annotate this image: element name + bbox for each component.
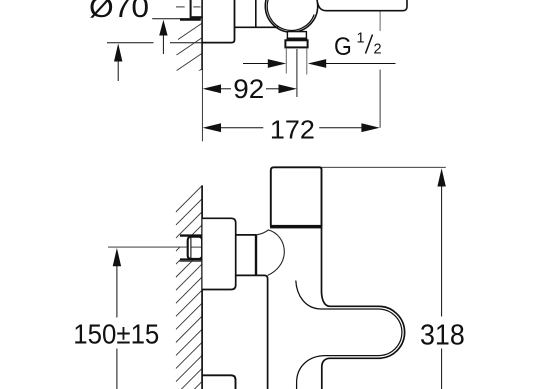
svg-text:G: G <box>334 33 352 61</box>
thick joint band <box>270 225 322 229</box>
dimension 92 <box>203 84 297 93</box>
body front edge (top view) <box>235 26 279 28</box>
s-union top thick line <box>180 234 202 236</box>
wall face line (side view) <box>201 185 203 389</box>
neck bottom to down tube corner <box>256 275 267 389</box>
thin line below s-union <box>180 260 202 262</box>
wall face / escutcheon back edge (top view) <box>201 0 203 70</box>
lower escutcheon (shower connection) <box>203 375 236 389</box>
s-union visible above wall <box>190 0 192 16</box>
escutcheon (side view) <box>203 218 236 289</box>
inlet center line inside nut <box>192 246 202 248</box>
outlet nut thick collar <box>287 38 308 41</box>
G 1/2 dimension arrows <box>243 59 396 68</box>
wall hatch (side view) <box>176 186 202 389</box>
nut face line <box>190 237 192 258</box>
dimension 172 <box>203 123 380 132</box>
dimension 318 <box>437 168 445 389</box>
extension line spout mouth center <box>379 12 381 32</box>
318 extension line from body top <box>322 166 446 168</box>
wall hatch (top view) <box>177 23 202 78</box>
inlet center line / 150 extension <box>108 246 188 248</box>
knob outer circle <box>265 0 317 32</box>
s-union nut <box>188 237 202 259</box>
knob inner circle <box>267 0 314 30</box>
tube right edge + spout attachment (inner profile) <box>322 228 405 389</box>
s-union pipe white fill over hatch <box>180 237 202 259</box>
svg-text:172: 172 <box>270 115 315 145</box>
outlet pipe edges <box>285 48 287 74</box>
svg-text:318: 318 <box>420 319 465 351</box>
cartridge dome <box>256 230 284 276</box>
extension line escutcheon face <box>107 42 154 44</box>
arrow up at wall face <box>159 20 167 54</box>
spout arm (top view) <box>317 0 407 11</box>
extension line from wall face down to 172 dim <box>201 70 203 141</box>
outlet pipe center line <box>296 49 298 97</box>
outlet upper nut <box>287 32 306 39</box>
svg-text:92: 92 <box>233 74 264 104</box>
s-union bottom thick line <box>180 258 202 260</box>
wall top edge thick (top view) <box>180 18 201 21</box>
outlet lower nut <box>285 40 307 47</box>
svg-text:2: 2 <box>374 42 382 58</box>
svg-text:1: 1 <box>357 31 365 47</box>
spout outer profile with crotch fillets <box>296 281 402 389</box>
svg-text:150±15: 150±15 <box>73 319 159 350</box>
svg-text:Ø70: Ø70 <box>89 0 149 24</box>
wire extension line wall face left (Ø70 dim) <box>152 18 181 20</box>
body top cap <box>271 167 322 226</box>
neck between escutcheon and body <box>236 235 257 276</box>
escutcheon (top view) right edge + front face <box>202 0 234 43</box>
s-union center dash line <box>176 6 185 8</box>
dimension 150±15 <box>113 248 121 389</box>
arrow up at escutcheon face <box>114 43 122 81</box>
